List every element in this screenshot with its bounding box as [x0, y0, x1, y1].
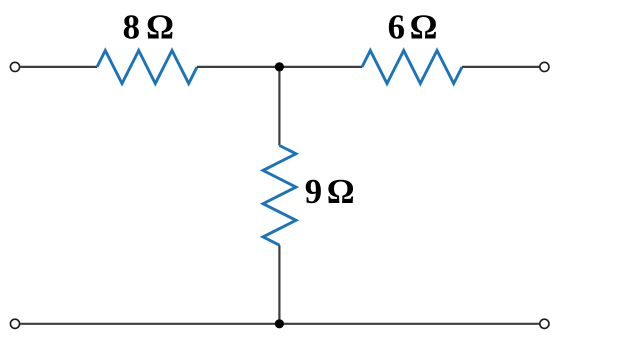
wire: resistor R3 down to bottom node	[278, 245, 280, 324]
svg-text:Ω: Ω	[410, 8, 438, 47]
wire: bottom-left terminal to bottom node	[20, 323, 279, 325]
svg-text:Ω: Ω	[146, 8, 174, 47]
svg-text:9: 9	[305, 172, 322, 211]
wire: top node down to resistor R3	[278, 67, 280, 146]
terminal: top-left open circle	[10, 62, 19, 71]
wire: resistor R1 to top node	[197, 66, 279, 68]
svg-text:6: 6	[388, 8, 405, 47]
resistor 9 ohm zigzag	[263, 146, 296, 246]
terminal: bottom-right open circle	[540, 319, 549, 328]
wire: bottom node to bottom-right terminal	[279, 323, 539, 325]
wire: top-left terminal to resistor R1	[20, 66, 97, 68]
wire: top node to resistor R2	[279, 66, 362, 68]
terminal: bottom-left open circle	[10, 319, 19, 328]
node: top junction dot	[275, 62, 284, 71]
svg-text:8: 8	[123, 8, 140, 47]
resistor 6 ohm zigzag	[362, 51, 462, 84]
resistor 8 ohm zigzag	[97, 51, 197, 84]
wire: resistor R2 to top-right terminal	[462, 66, 539, 68]
terminal: top-right open circle	[540, 62, 549, 71]
node: bottom junction dot	[275, 319, 284, 328]
svg-text:Ω: Ω	[327, 172, 355, 211]
